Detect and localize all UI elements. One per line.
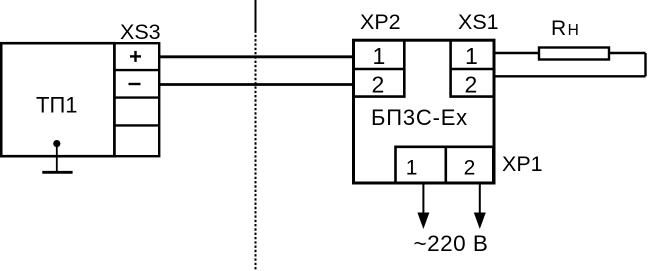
arrow 1 stem xyxy=(422,182,424,215)
wire minus XS3 to XP2 pin2 xyxy=(159,83,353,86)
svg-text:~220 В: ~220 В xyxy=(414,231,489,256)
partition line solid top segment xyxy=(255,0,257,31)
wire resistor to right xyxy=(609,52,646,54)
svg-text:ТП1: ТП1 xyxy=(36,92,78,117)
wire plus XS3 to XP2 pin1 xyxy=(159,55,353,58)
ground bar xyxy=(42,171,72,174)
ground stem xyxy=(56,144,58,172)
minus terminal xyxy=(129,83,141,85)
svg-text:2: 2 xyxy=(372,71,385,97)
arrow 1 head xyxy=(417,213,429,230)
svg-text:БП3С-Ех: БП3С-Ех xyxy=(371,105,468,130)
svg-text:XS1: XS1 xyxy=(458,10,499,34)
svg-text:XP1: XP1 xyxy=(502,152,543,176)
connector XS3 xyxy=(114,43,159,156)
connector XP1 xyxy=(396,147,494,182)
box TP1 xyxy=(1,43,114,156)
wire return to XS1 pin2 xyxy=(494,75,646,77)
plus terminal xyxy=(130,55,141,57)
wire XS1 pin1 to resistor Rn xyxy=(494,52,539,54)
svg-text:1: 1 xyxy=(373,43,386,69)
svg-text:RН: RН xyxy=(551,17,579,40)
resistor Rn xyxy=(539,48,609,60)
box BP3S-Ex xyxy=(354,40,495,183)
svg-text:1: 1 xyxy=(465,43,478,69)
wire right vertical xyxy=(644,53,646,76)
partition dashed line xyxy=(255,31,257,271)
svg-text:1: 1 xyxy=(406,157,418,180)
svg-text:2: 2 xyxy=(464,157,476,180)
arrow 2 stem xyxy=(479,182,481,215)
svg-text:XS3: XS3 xyxy=(120,20,161,44)
connector XP2 xyxy=(354,40,405,96)
arrow 2 head xyxy=(474,213,486,230)
junction dot xyxy=(53,140,60,147)
svg-text:XP2: XP2 xyxy=(360,10,401,34)
svg-text:2: 2 xyxy=(465,71,478,97)
connector XS1 xyxy=(451,40,494,96)
